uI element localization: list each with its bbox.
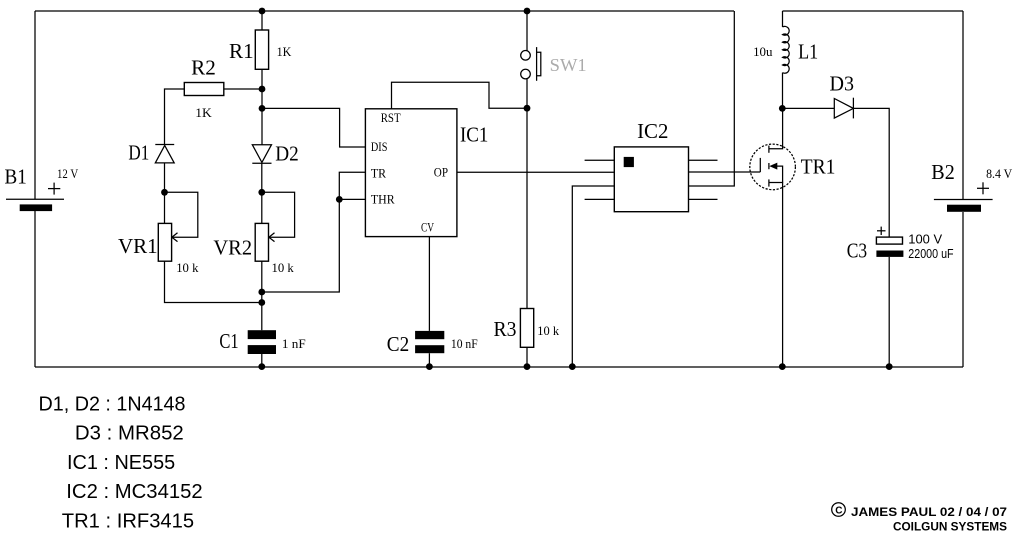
wire left frame upper xyxy=(34,11,36,199)
svg-text:10 nF: 10 nF xyxy=(451,336,478,351)
wire left frame lower xyxy=(34,211,36,367)
diode D2 xyxy=(252,145,271,164)
wire C1 bottom lead xyxy=(261,354,263,367)
wire SW1 bottom lead xyxy=(526,79,528,108)
node THR return junction xyxy=(258,289,265,296)
resistor R3 xyxy=(520,309,533,348)
wire R3 bottom lead xyxy=(526,347,528,367)
node C1 / bottom rail xyxy=(258,363,265,370)
svg-text:R2: R2 xyxy=(191,55,216,79)
wire TR stub and down link xyxy=(262,172,366,292)
svg-text:8.4 V: 8.4 V xyxy=(986,166,1013,181)
wire C2 bottom lead xyxy=(428,353,430,367)
resistor R1 xyxy=(255,30,268,69)
node top rail / SW1 xyxy=(524,8,531,15)
node THR branch xyxy=(336,196,343,203)
wire IC2 right pin 3 to top rail xyxy=(689,11,735,186)
svg-text:RST: RST xyxy=(381,110,401,125)
VR1 wiper arrowhead xyxy=(172,233,178,242)
svg-text:1K: 1K xyxy=(195,105,212,120)
wire right frame lower xyxy=(962,212,964,367)
node D1/VR1 junction xyxy=(161,189,168,196)
svg-text:VR2: VR2 xyxy=(213,235,252,259)
potentiometer VR2 xyxy=(255,223,268,261)
driver IC2 box xyxy=(614,147,688,212)
svg-text:IC1 : NE555: IC1 : NE555 xyxy=(67,451,175,474)
wire VR1 wiper bracket xyxy=(165,192,198,237)
node VR1 return junction xyxy=(258,299,265,306)
wire D3 anode lead xyxy=(782,107,834,109)
diode D3 xyxy=(834,98,853,119)
svg-text:VR1: VR1 xyxy=(118,234,158,258)
svg-text:D3: D3 xyxy=(830,72,855,96)
svg-text:TR1: TR1 xyxy=(801,154,836,178)
battery B1 xyxy=(6,183,64,211)
node IC2 ground / bottom rail xyxy=(569,363,576,370)
wire VR2 wiper bracket xyxy=(262,192,295,237)
capacitor C3 xyxy=(876,227,903,257)
wire IC2 right pin 2 to gate xyxy=(689,171,761,173)
svg-text:IC2 : MC34152: IC2 : MC34152 xyxy=(66,480,202,503)
node C3 / bottom rail xyxy=(886,363,893,370)
svg-text:D1, D2 : 1N4148: D1, D2 : 1N4148 xyxy=(39,393,186,416)
wire IC2 right pin 4 stub xyxy=(689,198,718,200)
wire top rail right xyxy=(783,10,964,12)
svg-text:D2: D2 xyxy=(275,142,299,166)
svg-text:CV: CV xyxy=(421,219,434,234)
VR2 wiper arrowhead xyxy=(269,233,275,242)
wire D1 to VR1 xyxy=(164,163,166,224)
node C2 / bottom rail xyxy=(426,363,433,370)
battery B2 xyxy=(934,182,993,212)
svg-text:10 k: 10 k xyxy=(537,323,559,338)
node top rail / R1 xyxy=(259,8,266,15)
svg-text:SW1: SW1 xyxy=(550,55,587,75)
wire D3 cathode to C3 xyxy=(853,108,889,237)
svg-text:C3: C3 xyxy=(847,239,867,263)
wire IC2 left pin 1 stub xyxy=(585,159,615,161)
node TR1 source / bottom rail xyxy=(779,363,786,370)
svg-text:10 k: 10 k xyxy=(176,260,199,275)
svg-text:100 V: 100 V xyxy=(908,233,942,247)
svg-text:1K: 1K xyxy=(277,44,292,59)
wire IC2 left pin 3 to ground xyxy=(572,186,614,367)
wire right frame upper xyxy=(962,11,964,200)
node DIS branch junction xyxy=(259,105,266,112)
wire OP net xyxy=(457,171,614,173)
svg-text:22000 uF: 22000 uF xyxy=(908,247,954,261)
svg-text:C: C xyxy=(835,505,842,516)
potentiometer VR1 xyxy=(158,223,171,261)
svg-text:R1: R1 xyxy=(229,39,254,63)
svg-text:IC2: IC2 xyxy=(637,119,668,143)
wire RST net xyxy=(392,82,528,109)
svg-text:OP: OP xyxy=(434,165,448,180)
wire THR stub xyxy=(339,198,365,200)
svg-text:12 V: 12 V xyxy=(57,166,79,181)
node R1/R2 junction xyxy=(259,86,266,93)
svg-text:IC1: IC1 xyxy=(460,123,488,147)
svg-text:C2: C2 xyxy=(387,332,409,356)
svg-text:L1: L1 xyxy=(798,39,818,63)
node R3 / bottom rail xyxy=(524,363,531,370)
svg-text:1 nF: 1 nF xyxy=(282,336,306,351)
wire top rail left xyxy=(35,10,734,12)
wire R2 left lead to D1 xyxy=(165,89,185,145)
IC2 pin-1 marker square xyxy=(624,157,634,167)
wire C3 bottom lead xyxy=(888,257,890,367)
node D2/VR2 junction xyxy=(258,189,265,196)
wire VR2 bottom to C1 xyxy=(261,261,263,330)
inductor L1 xyxy=(783,11,790,108)
svg-text:10u: 10u xyxy=(753,44,773,59)
svg-text:B1: B1 xyxy=(5,165,27,189)
wire SW1 top lead xyxy=(526,11,528,51)
wire R2 right lead xyxy=(224,88,262,90)
svg-text:R3: R3 xyxy=(494,317,517,341)
capacitor C2 xyxy=(415,331,444,353)
wire R1 bottom to D2 xyxy=(261,69,263,144)
wire CV lead xyxy=(428,237,430,331)
copyright symbol xyxy=(832,503,846,517)
wire IC2 left pin 4 stub xyxy=(585,198,615,200)
svg-text:COILGUN SYSTEMS: COILGUN SYSTEMS xyxy=(893,520,1007,534)
wire VR1 bottom lead xyxy=(165,261,262,302)
svg-text:B2: B2 xyxy=(931,160,955,184)
svg-text:DIS: DIS xyxy=(371,139,388,154)
switch SW1 xyxy=(521,47,541,81)
svg-text:JAMES PAUL 02 / 04 / 07: JAMES PAUL 02 / 04 / 07 xyxy=(851,505,1007,519)
node SW1/RST/R3 junction xyxy=(524,105,531,112)
transistor TR1 MOSFET xyxy=(750,108,796,367)
diode D1 xyxy=(155,145,174,163)
svg-text:THR: THR xyxy=(371,192,395,207)
wire IC2 right pin 1 stub xyxy=(689,159,718,161)
wire R1 top lead xyxy=(261,11,263,30)
svg-text:D1: D1 xyxy=(128,140,149,164)
node L1/D3/drain junction xyxy=(779,105,786,112)
svg-text:D3 : MR852: D3 : MR852 xyxy=(75,422,184,445)
svg-text:10 k: 10 k xyxy=(272,260,295,275)
capacitor C1 xyxy=(248,330,276,354)
wire DIS net xyxy=(262,108,365,147)
wire D2 to VR2 xyxy=(261,163,263,223)
wire bottom rail xyxy=(35,366,963,368)
svg-text:C1: C1 xyxy=(219,329,238,353)
svg-text:TR1 : IRF3415: TR1 : IRF3415 xyxy=(62,509,194,532)
resistor R2 xyxy=(184,83,224,96)
op-amp/timer IC1 box xyxy=(365,109,457,237)
svg-text:TR: TR xyxy=(371,165,386,180)
wire R3 top lead xyxy=(526,108,528,308)
